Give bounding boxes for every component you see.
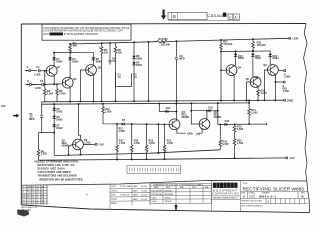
svg-text:B: B — [243, 195, 245, 199]
svg-text:MADE: MADE — [111, 202, 118, 205]
capacitor C4/C5 loop — [116, 72, 132, 87]
svg-text:D664: D664 — [72, 61, 79, 64]
wire Q6r emitter to E — [275, 74, 283, 100]
svg-text:D664: D664 — [152, 201, 158, 203]
svg-text:ENG.: ENG. — [111, 195, 116, 197]
svg-text:B: B — [173, 14, 176, 19]
svg-text:D662: D662 — [57, 110, 64, 113]
svg-text:1,500: 1,500 — [237, 128, 244, 131]
svg-text:GND: GND — [287, 98, 293, 102]
svg-text:Q6: Q6 — [263, 64, 267, 67]
transistor Q5r — [250, 77, 261, 88]
transistor Q1 — [46, 65, 57, 76]
terminal E out — [283, 81, 285, 83]
svg-text:100,000: 100,000 — [161, 43, 171, 46]
resistor R12 column — [220, 40, 222, 101]
margin marks — [1, 106, 29, 217]
svg-text:RESISTORS MAY BE SUBSTITUTED: RESISTORS MAY BE SUBSTITUTED — [40, 178, 83, 181]
svg-text:+: + — [86, 193, 88, 197]
diode D2 — [69, 53, 71, 58]
svg-text:DATE: DATE — [133, 189, 138, 192]
svg-text:DRA 110: DRA 110 — [255, 205, 262, 208]
svg-text:1,500: 1,500 — [47, 93, 54, 96]
drn/chk table — [110, 184, 150, 206]
svg-text:DEC: DEC — [192, 187, 197, 189]
title strip right edge — [307, 181, 310, 213]
svg-text:DRN.: DRN. — [111, 186, 116, 188]
svg-text:BY DIGITAL EQUIPMENT CORPORATI: BY DIGITAL EQUIPMENT CORPORATION — [64, 33, 98, 36]
svg-text:1,000: 1,000 — [35, 87, 42, 90]
wire Q7 emitter — [80, 150, 82, 155]
wire Q2 emitter — [69, 87, 71, 102]
arrow mark — [13, 114, 19, 118]
diode D14 — [235, 51, 237, 53]
svg-text:D12: D12 — [225, 120, 230, 123]
svg-text:TITLE: TITLE — [242, 183, 248, 185]
svg-text:1,000: 1,000 — [34, 73, 41, 76]
wire C with diode D11 — [191, 110, 218, 112]
wire Q5 collector — [206, 111, 208, 120]
transistor Q7 — [73, 139, 84, 150]
svg-text:D664: D664 — [273, 57, 280, 60]
svg-text:CS: CS — [249, 195, 253, 199]
svg-text:2N3009: 2N3009 — [165, 190, 173, 192]
svg-text:1,000: 1,000 — [105, 110, 112, 113]
diode D15 — [252, 51, 254, 54]
svg-text:DATE: DATE — [133, 198, 138, 201]
resistor R16 — [257, 86, 259, 100]
svg-text:D11: D11 — [209, 106, 214, 109]
wire R2 column — [44, 71, 46, 102]
capacitor C13 column — [175, 41, 178, 120]
svg-text:1N645: 1N645 — [165, 198, 172, 200]
transistor Q2 — [62, 77, 73, 88]
svg-text:680: 680 — [73, 45, 78, 48]
svg-text:1,500: 1,500 — [84, 141, 91, 144]
node input1/R2 — [44, 70, 46, 72]
diode D3 — [92, 52, 94, 57]
svg-text:1,500: 1,500 — [149, 142, 156, 145]
svg-text:D662: D662 — [57, 118, 64, 121]
resistor R13 — [252, 39, 254, 51]
wire rail3 — [54, 150, 220, 156]
svg-text:3009B: 3009B — [182, 116, 190, 119]
down arrow — [161, 10, 166, 20]
svg-text:DEC3009B: DEC3009B — [152, 190, 163, 192]
wire Q5 emitter — [198, 128, 203, 133]
svg-text:D664: D664 — [136, 64, 143, 67]
wire Q4 emitter — [177, 129, 186, 134]
svg-text:D10: D10 — [166, 107, 171, 110]
diode D8 / D9 column — [133, 42, 135, 56]
up arrow — [174, 204, 178, 210]
pc rev cells — [266, 199, 304, 204]
svg-text:1,500: 1,500 — [167, 142, 174, 145]
resistor R8 column — [39, 133, 42, 161]
svg-text:g: g — [221, 183, 224, 188]
svg-text:100,000: 100,000 — [223, 43, 233, 46]
title block — [241, 183, 309, 208]
dash mark — [1, 105, 6, 108]
svg-text:10-2-67: 10-2-67 — [141, 186, 147, 188]
terminal A +10V — [289, 37, 291, 39]
svg-text:D664: D664 — [255, 57, 262, 60]
torn right edge — [304, 24, 307, 182]
wire column D12 — [218, 103, 267, 125]
svg-text:10-4-67: 10-4-67 — [141, 195, 147, 197]
svg-text:1,500: 1,500 — [251, 111, 258, 114]
sheet bottom edge — [21, 205, 309, 213]
bottom strip — [21, 180, 309, 211]
svg-text:Q5: Q5 — [246, 78, 250, 81]
transistor Q6r — [268, 65, 279, 76]
svg-text:DATE: DATE — [133, 194, 138, 197]
wire subrail right — [221, 50, 270, 53]
sheet border top — [21, 23, 306, 26]
notes — [34, 161, 83, 182]
svg-text:7,500: 7,500 — [59, 93, 66, 96]
svg-text:PROD.: PROD. — [111, 199, 118, 201]
diode D7a in wire — [122, 122, 125, 125]
top number strip — [161, 10, 240, 21]
svg-text:DATE: DATE — [133, 185, 138, 188]
svg-text:DEC FORM NO.: DEC FORM NO. — [241, 206, 255, 208]
svg-text:DEC6534B: DEC6534B — [152, 194, 163, 196]
resistor R1 — [69, 43, 71, 45]
svg-text:1,500: 1,500 — [283, 90, 290, 93]
resistor R2 — [44, 89, 47, 96]
resistor R6 column — [115, 43, 117, 102]
parts list table — [21, 185, 47, 205]
svg-text:TRANSISTORS ARE DEC3009B: TRANSISTORS ARE DEC3009B — [38, 175, 77, 178]
bottom-left smudge — [17, 210, 29, 217]
wire column to rail3 — [157, 124, 159, 153]
svg-text:1,500: 1,500 — [222, 143, 229, 146]
svg-text:D664: D664 — [238, 57, 245, 60]
svg-text:1,500: 1,500 — [119, 130, 126, 133]
svg-text:D664: D664 — [136, 57, 143, 60]
resistor R18 column — [131, 124, 133, 159]
wire Q4r base — [221, 69, 226, 71]
svg-text:l: l — [235, 183, 236, 188]
svg-text:11-1-67: 11-1-67 — [141, 199, 147, 201]
capacitor C2 — [32, 83, 63, 86]
svg-text:Q3: Q3 — [98, 67, 102, 70]
terminal B -15V — [286, 157, 288, 159]
svg-text:1,500: 1,500 — [284, 76, 291, 79]
svg-text:DEC: DEC — [166, 187, 171, 189]
wire R3 column — [56, 84, 58, 102]
svg-text:RIGHT: RIGHT — [43, 33, 49, 36]
resistor R3 — [56, 89, 59, 96]
wire bottom rail — [39, 158, 286, 160]
wire Q4r emitter — [233, 75, 235, 101]
diode D5 D6 D7 chain — [53, 104, 55, 108]
svg-text:CHK'D.: CHK'D. — [111, 190, 118, 192]
resistor R10 column — [103, 104, 169, 125]
wire subrail left — [54, 51, 93, 53]
wire Q3 emitter — [93, 74, 95, 101]
svg-text:1,500: 1,500 — [41, 153, 48, 156]
transistor Q4r — [226, 65, 237, 76]
svg-text:D662: D662 — [152, 198, 158, 200]
svg-text:MFD: MFD — [29, 118, 35, 121]
svg-text:W885-0-1: W885-0-1 — [259, 194, 276, 198]
svg-text:PRINTED CIRCUIT REV.: PRINTED CIRCUIT REV. — [241, 200, 263, 202]
resistor R19 column — [219, 124, 221, 149]
capacitor C6 stub — [108, 43, 111, 65]
svg-text:D664: D664 — [56, 61, 63, 64]
connector strip — [127, 166, 181, 174]
notice box — [42, 24, 131, 40]
wire Q7 collector — [79, 104, 81, 139]
svg-text:2N3639B: 2N3639B — [165, 194, 174, 196]
terminal C GND — [284, 99, 286, 101]
svg-text:RECTIFYING SLICER W885: RECTIFYING SLICER W885 — [243, 186, 305, 191]
resistor R19 column — [146, 124, 148, 159]
svg-text:D664: D664 — [96, 61, 103, 64]
svg-text:MAYNARD. MASSACHUSETTS: MAYNARD. MASSACHUSETTS — [213, 196, 238, 199]
resistor R9 / terminal -15V aux — [83, 143, 95, 145]
svg-text:100: 100 — [104, 51, 109, 54]
resistor R11 column — [248, 100, 250, 124]
resistor R17 column — [116, 124, 118, 160]
svg-text:1,500: 1,500 — [119, 142, 126, 145]
transistor Q4 — [169, 119, 180, 130]
svg-text:-15V: -15V — [98, 143, 104, 147]
svg-text:100,000: 100,000 — [257, 44, 267, 47]
svg-text:1N3606: 1N3606 — [165, 201, 173, 203]
capacitor C3 column — [40, 102, 54, 133]
svg-text:Q1: Q1 — [57, 66, 61, 69]
svg-text:R. HISCOE: R. HISCOE — [120, 195, 130, 197]
wire A with diode D10 — [159, 104, 176, 112]
svg-text:.01: .01 — [117, 76, 121, 79]
empty approvals box — [46, 185, 48, 205]
strip top line — [21, 180, 307, 185]
svg-text:K: K — [27, 80, 29, 83]
svg-text:6534B: 6534B — [62, 144, 70, 147]
resistor R15 / R20 column — [234, 124, 236, 158]
DEC logo block — [212, 180, 241, 211]
svg-text:MFD: MFD — [179, 58, 185, 61]
wire rail2b — [42, 103, 249, 104]
wire Q1 emitter — [53, 75, 55, 84]
wire Q5 base column — [191, 103, 199, 124]
svg-text:1,500: 1,500 — [134, 142, 141, 145]
wire Q7 base — [69, 145, 73, 155]
wire column — [148, 42, 150, 101]
svg-text:d: d — [214, 183, 217, 188]
sheet border left — [20, 24, 22, 205]
wire Q5r base — [247, 82, 251, 100]
svg-text:1,500: 1,500 — [260, 92, 267, 95]
resistor R21 column — [164, 124, 166, 159]
wire Q6r base — [264, 70, 267, 100]
svg-text:+10V: +10V — [292, 37, 299, 41]
svg-text:i: i — [225, 183, 226, 188]
transistor Q5 — [199, 119, 210, 130]
svg-text:i: i — [218, 183, 219, 188]
svg-text:C O R P O R A T I O N: C O R P O R A T I O N — [212, 193, 238, 196]
svg-text:100: 100 — [118, 51, 123, 54]
wire Q3 base — [80, 70, 85, 102]
diode D1 — [53, 53, 55, 58]
svg-text:(C): (C) — [196, 133, 200, 136]
transistor Q3 — [86, 65, 97, 76]
svg-text:2: 2 — [229, 15, 231, 19]
resistor R14 — [157, 40, 167, 43]
svg-text:THIS DWG: THIS DWG — [21, 209, 31, 211]
resistor R5 column — [101, 43, 103, 101]
conversion chart — [150, 183, 212, 209]
svg-text:C-B-S-012: C-B-S-012 — [208, 14, 223, 18]
capacitor C1 — [38, 69, 46, 72]
wire rail +10V top — [70, 38, 289, 44]
svg-text:1,500: 1,500 — [237, 142, 244, 145]
svg-text:3009B: 3009B — [214, 116, 222, 119]
svg-text:A: A — [267, 200, 269, 204]
svg-text:10-4-67: 10-4-67 — [141, 190, 147, 192]
svg-text:D662: D662 — [57, 127, 64, 130]
wire rail2a — [42, 100, 284, 102]
svg-text:-15V: -15V — [289, 156, 295, 160]
svg-text:W. SULLIVAN: W. SULLIVAN — [120, 185, 132, 188]
svg-text:GND: GND — [187, 133, 193, 136]
diode D16 — [269, 51, 271, 54]
terminal F out — [278, 70, 283, 72]
